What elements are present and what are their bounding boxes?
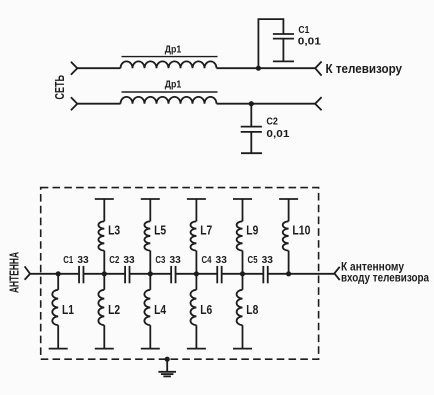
svg-text:33: 33 <box>77 254 88 266</box>
terminal arrow (line 2, right) <box>315 97 322 110</box>
capacitor C2 <box>241 127 262 154</box>
node junction (line1 / C1) <box>256 66 261 71</box>
inductor L4 <box>141 274 160 349</box>
svg-text:С4: С4 <box>201 254 211 266</box>
label L10 <box>292 222 310 237</box>
node junction 1 <box>56 271 61 276</box>
label К антенному <box>341 260 404 274</box>
value label 0,01 (C1) <box>298 36 321 48</box>
svg-text:С2: С2 <box>266 115 278 127</box>
svg-text:0,01: 0,01 <box>266 128 289 140</box>
inductor L2 <box>95 274 114 349</box>
inductor Др1 (line 2 choke) <box>121 92 218 104</box>
value label 33 (C5) <box>262 254 273 266</box>
wire (line1: choke to output) <box>217 67 316 69</box>
wire (line2: choke to output) <box>217 103 316 105</box>
label L7 <box>200 222 212 237</box>
wire (main line segment 4) <box>176 273 218 275</box>
value label 33 (C3) <box>169 254 180 266</box>
capacitor C2 (33 pF) <box>125 266 129 283</box>
value label 0,01 (C2) <box>266 128 289 140</box>
label L6 <box>200 302 212 317</box>
label C2 <box>109 254 119 266</box>
svg-text:L5: L5 <box>154 222 166 237</box>
label Др1 (line 2) <box>165 79 182 91</box>
wire (main line segment 2) <box>83 273 125 275</box>
node junction 2 <box>102 271 107 276</box>
svg-text:0,01: 0,01 <box>298 36 321 48</box>
svg-text:L8: L8 <box>246 302 258 317</box>
svg-text:С1: С1 <box>63 254 73 266</box>
node junction 4 <box>194 271 199 276</box>
value label 33 (C2) <box>123 254 134 266</box>
svg-text:33: 33 <box>169 254 180 266</box>
wire (main line segment 5) <box>222 273 264 275</box>
svg-text:СЕТЬ: СЕТЬ <box>52 75 67 100</box>
inductor L8 <box>233 274 252 349</box>
terminal arrow (antenna input) <box>25 266 31 279</box>
value label 33 (C1) <box>77 254 88 266</box>
label АНТЕННА <box>6 252 21 293</box>
svg-text:Др1: Др1 <box>165 79 182 91</box>
svg-text:L6: L6 <box>200 302 212 317</box>
node junction 6 <box>286 271 291 276</box>
node junction 3 <box>148 271 153 276</box>
svg-text:33: 33 <box>123 254 134 266</box>
wire (main line segment 3) <box>130 273 172 275</box>
label L2 <box>108 302 120 317</box>
label входу телевизора <box>341 273 430 285</box>
label C5 <box>248 254 258 266</box>
label L4 <box>154 302 167 317</box>
label К телевизору <box>326 62 403 76</box>
svg-text:С3: С3 <box>155 254 165 266</box>
label Др1 (line 1) <box>165 43 182 55</box>
value label 33 (C4) <box>216 254 227 266</box>
label C4 <box>201 254 211 266</box>
svg-text:L10: L10 <box>292 222 310 237</box>
svg-text:С2: С2 <box>109 254 119 266</box>
svg-text:входу телевизора: входу телевизора <box>341 273 430 285</box>
label C1 <box>63 254 73 266</box>
svg-text:L3: L3 <box>108 222 120 237</box>
node junction (line2 / C2) <box>249 101 254 106</box>
inductor Др1 (line 1 choke) <box>121 57 218 69</box>
terminal arrow (to TV antenna input) <box>334 267 339 280</box>
capacitor C5 (33 pF) <box>263 266 267 283</box>
inductor L6 <box>187 274 206 349</box>
terminal arrow (mains line 1, left) <box>71 62 77 75</box>
terminal arrow (line 1, right) <box>315 62 321 76</box>
label L5 <box>154 222 166 237</box>
svg-text:33: 33 <box>262 254 273 266</box>
label L3 <box>108 222 120 237</box>
label C3 <box>155 254 165 266</box>
svg-text:С1: С1 <box>298 24 309 36</box>
wire (node to C2) <box>250 104 252 127</box>
terminal arrow (mains line 2, left) <box>71 97 77 110</box>
svg-text:С5: С5 <box>248 254 258 266</box>
label L1 <box>62 302 74 317</box>
svg-text:L1: L1 <box>62 302 74 317</box>
inductor L1 <box>49 274 68 349</box>
inductor L5 <box>141 199 160 274</box>
wire (line1: left terminal to choke) <box>77 67 120 69</box>
inductor L10 <box>279 199 298 274</box>
label L9 <box>246 222 258 237</box>
svg-text:L7: L7 <box>200 222 212 237</box>
svg-text:АНТЕННА: АНТЕННА <box>6 252 21 293</box>
svg-text:К телевизору: К телевизору <box>326 62 403 76</box>
capacitor C1 (33 pF) <box>79 266 83 283</box>
capacitor C3 (33 pF) <box>171 266 175 283</box>
inductor L7 <box>187 199 206 274</box>
svg-text:К антенному: К антенному <box>341 260 404 274</box>
inductor L3 <box>95 199 114 274</box>
wire (C1 loop from node up and over) <box>258 19 283 68</box>
label C1 <box>298 24 309 36</box>
svg-text:L9: L9 <box>246 222 258 237</box>
net label СЕТЬ (mains) <box>52 75 67 100</box>
shield box (dashed screen enclosure) <box>41 188 319 360</box>
wire (line2: left terminal to choke) <box>77 103 120 105</box>
node junction (shield to ground) <box>165 357 170 362</box>
ground <box>158 359 176 376</box>
inductor L9 <box>233 199 252 274</box>
svg-text:L4: L4 <box>154 302 167 317</box>
wire (main line segment 1) <box>30 273 79 275</box>
node junction 5 <box>240 271 245 276</box>
label L8 <box>246 302 258 317</box>
capacitor C1 <box>273 34 294 61</box>
svg-text:L2: L2 <box>108 302 120 317</box>
wire (main line segment 6) <box>268 273 335 275</box>
capacitor C4 (33 pF) <box>217 266 221 283</box>
svg-text:Др1: Др1 <box>165 43 182 55</box>
svg-text:33: 33 <box>216 254 227 266</box>
label C2 <box>266 115 278 127</box>
